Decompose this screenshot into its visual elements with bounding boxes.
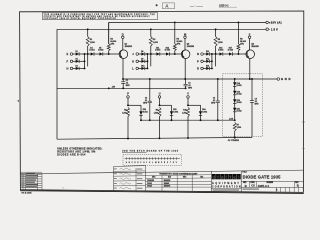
diode D10 xyxy=(141,67,144,70)
svg-text:DIODE GATE 1935: DIODE GATE 1935 xyxy=(243,175,282,180)
wire xyxy=(108,22,110,43)
wire input P xyxy=(203,60,206,62)
diode D19 xyxy=(233,91,236,95)
svg-text:1N3606: 1N3606 xyxy=(164,186,171,188)
svg-text:—— ·———: —— ·——— xyxy=(190,6,204,8)
wire +10V rail xyxy=(109,21,266,23)
svg-text:USE THE ETCH BOARD OF THE 1935: USE THE ETCH BOARD OF THE 1935 xyxy=(122,149,179,152)
wire input bus 2 xyxy=(87,54,89,66)
svg-text:N: N xyxy=(197,52,199,56)
svg-text:1935-0-1: 1935-0-1 xyxy=(219,4,229,7)
svg-text:-15V: -15V xyxy=(269,27,278,31)
svg-text:R9: R9 xyxy=(156,110,158,112)
resistor R6 68,000 xyxy=(237,22,239,43)
wire gate node xyxy=(212,53,220,55)
svg-text:E: E xyxy=(67,52,69,56)
svg-text:D10: D10 xyxy=(141,66,144,68)
resistor R10 1,500 xyxy=(187,108,190,117)
diode D18 xyxy=(233,82,236,86)
svg-text:2N4258: 2N4258 xyxy=(147,179,154,182)
diode D5 xyxy=(99,52,102,55)
svg-text:RS B 1935: RS B 1935 xyxy=(22,193,33,195)
wire input bus xyxy=(211,54,213,68)
svg-text:D-664: D-664 xyxy=(173,111,178,114)
diode D16 xyxy=(219,52,222,55)
wire input E xyxy=(73,53,76,55)
wire base xyxy=(103,53,121,55)
svg-text:GND: GND xyxy=(281,77,291,81)
wire xyxy=(159,98,161,105)
svg-text:R10: R10 xyxy=(183,110,186,112)
svg-text:MFD: MFD xyxy=(126,85,131,87)
svg-text:D: D xyxy=(122,32,124,36)
svg-text:U: U xyxy=(159,92,161,95)
svg-text:D662: D662 xyxy=(147,183,152,185)
node -3V xyxy=(234,112,236,120)
svg-text:EQUIPMENT: EQUIPMENT xyxy=(212,183,239,185)
transistor Q3 2N4258 xyxy=(246,50,255,59)
diode D1 xyxy=(76,52,79,55)
diode D9 xyxy=(141,60,144,63)
svg-text:S: S xyxy=(249,32,251,36)
resistor R5 1,500 xyxy=(215,29,217,36)
svg-text:R: R xyxy=(197,66,199,70)
wire emitter xyxy=(184,59,186,80)
wire collector xyxy=(249,39,251,51)
svg-text:D-664: D-664 xyxy=(143,111,148,114)
diode D14 xyxy=(206,60,209,63)
svg-text:K: K xyxy=(149,162,150,164)
svg-text:2N4258: 2N4258 xyxy=(251,45,259,48)
wire input F xyxy=(73,60,76,62)
svg-text:1,500: 1,500 xyxy=(122,112,127,114)
svg-text:E: E xyxy=(138,162,139,164)
svg-text:D-662: D-662 xyxy=(237,111,242,113)
wire input K xyxy=(138,60,141,62)
svg-text:1N645: 1N645 xyxy=(164,182,170,185)
resistor R9 1,500 xyxy=(158,108,161,117)
capacitor C1 xyxy=(122,79,124,82)
wire left edge bus xyxy=(56,29,58,139)
svg-text:1,500: 1,500 xyxy=(182,112,187,114)
svg-text:d: d xyxy=(213,176,215,180)
svg-text:TITLE: TITLE xyxy=(242,172,246,174)
svg-text:T: T xyxy=(170,162,171,164)
svg-text:MFD: MFD xyxy=(188,87,193,89)
diode D13 xyxy=(206,52,209,55)
diode D3 xyxy=(76,67,79,70)
svg-text:D8: D8 xyxy=(141,51,143,53)
svg-text:MFD: MFD xyxy=(255,104,260,106)
svg-text:S: S xyxy=(167,162,168,164)
svg-text:D-662: D-662 xyxy=(237,102,242,104)
transistor Q2 2N4258 xyxy=(181,50,190,59)
svg-text:N: N xyxy=(158,162,159,164)
svg-text:DIODES ARE D-664: DIODES ARE D-664 xyxy=(57,153,86,156)
wire input L xyxy=(138,67,141,69)
wire gate node xyxy=(85,53,91,55)
svg-text:D1: D1 xyxy=(76,51,78,53)
svg-text:2N4258: 2N4258 xyxy=(164,179,171,182)
diode D24 xyxy=(200,105,202,111)
svg-text:D3: D3 xyxy=(76,66,78,68)
wire collector xyxy=(184,39,186,51)
svg-text:F: F xyxy=(140,162,141,164)
resistor R8 1,500 xyxy=(127,108,130,117)
svg-text:CORPORATION: CORPORATION xyxy=(212,186,241,189)
wire input J xyxy=(138,53,141,55)
terminal B -15V xyxy=(266,28,269,31)
svg-text:V: V xyxy=(176,162,177,164)
wire -3V clamp rail xyxy=(141,119,235,121)
terminal A +10V xyxy=(266,21,269,24)
svg-text:TRANSISTOR & DIODE CONVERSION: TRANSISTOR & DIODE CONVERSION CHART xyxy=(159,172,198,175)
terminal output M xyxy=(184,36,187,39)
svg-text:10%: 10% xyxy=(240,43,244,45)
capacitor C4 xyxy=(217,78,219,80)
svg-text:g: g xyxy=(221,176,223,180)
svg-text:A: A xyxy=(166,4,169,9)
wire xyxy=(160,53,166,55)
wire gate node xyxy=(147,53,156,55)
diode D8 xyxy=(141,52,144,55)
wire emitter xyxy=(122,59,124,80)
wire -15V rail xyxy=(57,28,266,30)
svg-text:a: a xyxy=(234,176,236,180)
svg-text:D14: D14 xyxy=(206,57,209,60)
svg-text:D-662: D-662 xyxy=(237,85,242,87)
svg-text:P: P xyxy=(197,59,199,63)
svg-text:10%: 10% xyxy=(110,43,114,45)
wire input bus 2 xyxy=(215,54,217,66)
svg-text:-3V OTHERS: -3V OTHERS xyxy=(228,140,240,142)
diode D22 xyxy=(140,105,142,111)
wire input bus xyxy=(84,54,86,68)
svg-text:D9: D9 xyxy=(141,58,143,60)
wire input N xyxy=(203,53,206,55)
wire input R xyxy=(203,67,206,69)
svg-text:D2: D2 xyxy=(76,58,78,60)
diode D12 xyxy=(166,52,169,55)
svg-text:D-662: D-662 xyxy=(237,94,242,96)
svg-text:D13: D13 xyxy=(206,51,209,53)
wire ground rail xyxy=(123,78,277,80)
svg-text:1,500: 1,500 xyxy=(153,42,159,44)
wire xyxy=(223,53,229,55)
wire emitter xyxy=(249,59,251,80)
svg-text:2N4258: 2N4258 xyxy=(125,45,133,48)
svg-text:1,500: 1,500 xyxy=(90,42,96,44)
svg-text:K: K xyxy=(132,59,134,63)
wire bottom -15V rail xyxy=(57,137,252,139)
svg-text:+10V (A): +10V (A) xyxy=(269,21,282,25)
diode D15 xyxy=(206,67,209,70)
wire xyxy=(187,98,189,105)
svg-text:10%: 10% xyxy=(177,43,181,45)
resistor R3 1,500 xyxy=(150,29,152,36)
capacitor C2 xyxy=(149,78,151,80)
capacitor C3 xyxy=(185,79,187,84)
svg-text:P: P xyxy=(161,162,162,164)
wire input bus 2 xyxy=(150,54,152,66)
diode D2 xyxy=(76,60,79,63)
svg-text:i: i xyxy=(226,176,227,180)
svg-text:l: l xyxy=(238,176,239,180)
resistor R4 68,000 xyxy=(174,22,176,43)
wire xyxy=(94,53,99,55)
svg-text:CS: CS xyxy=(251,185,255,188)
diode D20 xyxy=(233,99,236,103)
svg-text:B: B xyxy=(129,162,130,164)
wire input bus xyxy=(146,54,148,68)
svg-text:i: i xyxy=(218,176,219,180)
resistor R2 68,000 xyxy=(108,22,110,43)
svg-text:D-664: D-664 xyxy=(202,111,207,114)
diode D23 xyxy=(171,105,173,111)
wire collector xyxy=(122,39,124,51)
wire xyxy=(127,98,129,105)
wire input H xyxy=(73,67,76,69)
svg-text:2N4258: 2N4258 xyxy=(187,45,195,48)
diode D17 xyxy=(229,52,232,55)
svg-text:H: H xyxy=(67,66,69,70)
svg-text:1,500: 1,500 xyxy=(218,42,224,44)
wire clamp chain xyxy=(234,78,236,80)
svg-text:U: U xyxy=(173,162,174,164)
terminal output D xyxy=(122,36,125,39)
wire base xyxy=(232,53,247,55)
capacitor C5 xyxy=(251,78,253,80)
resistor R1 1,500 xyxy=(87,29,89,36)
wire mid -15V rail xyxy=(57,87,186,89)
terminal C GND xyxy=(277,78,280,81)
svg-text:MFD: MFD xyxy=(211,102,216,104)
svg-text:D15: D15 xyxy=(206,66,209,68)
diode D4 xyxy=(91,52,94,55)
svg-text:H: H xyxy=(143,162,144,164)
svg-text:1,500: 1,500 xyxy=(154,112,159,114)
wire base xyxy=(169,53,182,55)
resistor R7 1,500 xyxy=(233,122,236,131)
svg-text:B: B xyxy=(297,184,299,188)
svg-text:MFD: MFD xyxy=(143,103,148,105)
svg-text:R8: R8 xyxy=(124,110,126,112)
diode D11 xyxy=(156,52,159,55)
diode D21 xyxy=(233,108,236,112)
terminal output S xyxy=(248,36,251,39)
clamp network dashed box xyxy=(223,74,263,137)
svg-text:1,500: 1,500 xyxy=(237,127,242,129)
svg-text:(-3V): (-3V) xyxy=(229,119,234,121)
transistor Q1 2N4258 xyxy=(119,50,128,59)
